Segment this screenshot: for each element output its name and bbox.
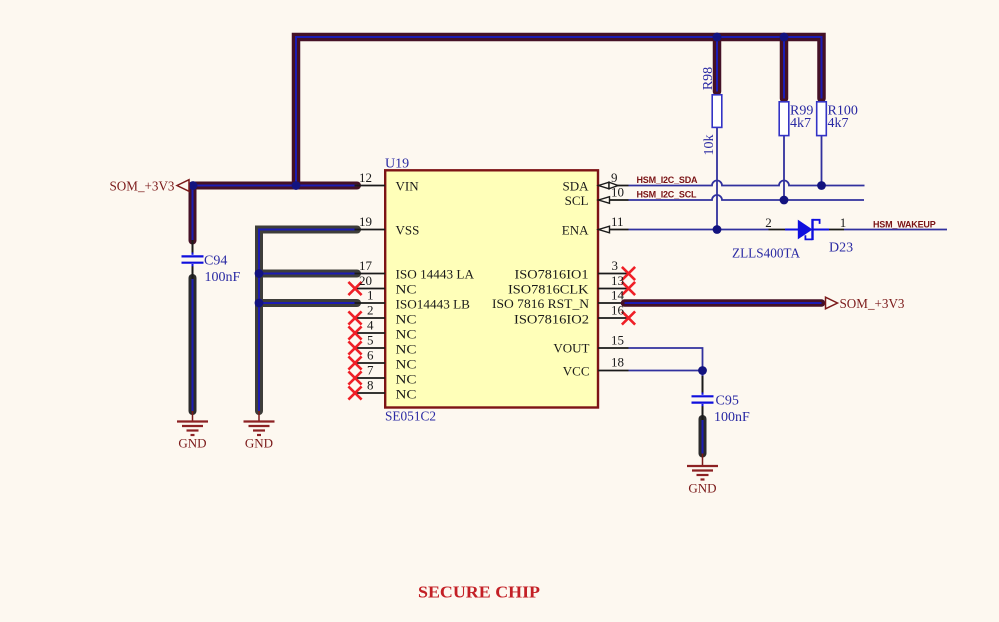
resistor R99	[779, 102, 789, 136]
svg-text:20: 20	[359, 273, 372, 288]
node: bus to R99	[780, 33, 789, 42]
svg-text:3: 3	[612, 258, 619, 273]
no-connect X pin 3	[622, 267, 635, 280]
diode D23 pin 1 lead	[829, 229, 844, 231]
wire: ISO 14443 LB to VSS line	[259, 299, 357, 307]
svg-text:SOM_+3V3: SOM_+3V3	[110, 180, 175, 195]
wire: R98 bottom to ENA	[716, 128, 718, 230]
svg-text:SECURE CHIP: SECURE CHIP	[418, 583, 540, 602]
svg-text:C94: C94	[204, 253, 227, 268]
svg-text:18: 18	[611, 355, 624, 370]
svg-text:NC: NC	[396, 312, 417, 327]
wire: VSS loop from pin 19 down	[259, 230, 357, 412]
no-connect X pin 8	[348, 386, 361, 399]
wire: C95 top link	[702, 372, 704, 395]
svg-text:11: 11	[611, 214, 624, 229]
wire: R99 bottom to SCL	[783, 136, 785, 201]
wire: ISO 14443 LA to VSS line	[259, 270, 357, 278]
no-connect X pin 7	[348, 371, 361, 384]
no-connect X pin 16	[622, 311, 635, 324]
no-connect X pin 5	[348, 341, 361, 354]
pin 2 stub	[355, 317, 385, 319]
svg-text:1: 1	[367, 288, 374, 303]
node: LA joins VSS line	[255, 269, 264, 278]
svg-text:2: 2	[765, 215, 772, 230]
pin 15 stub	[598, 347, 629, 349]
node: LB joins VSS line	[255, 299, 264, 308]
pin 3 stub	[598, 273, 629, 275]
pin 9 stub	[598, 185, 629, 187]
svg-text:19: 19	[359, 214, 372, 229]
svg-text:D23: D23	[829, 240, 853, 255]
capacitor C94	[182, 253, 204, 267]
diode D23 schottky symbol	[785, 219, 829, 240]
pin 9 SDA bidirectional arrows	[599, 182, 619, 189]
svg-text:7: 7	[367, 363, 374, 378]
wire: ENA net to diode	[629, 229, 769, 231]
svg-text:100nF: 100nF	[714, 410, 750, 425]
svg-text:VIN: VIN	[396, 179, 420, 194]
wire: C94 top link	[192, 240, 194, 255]
node: R98 joins ENA	[713, 225, 722, 234]
svg-text:SE051C2: SE051C2	[385, 410, 436, 425]
svg-text:9: 9	[611, 170, 618, 185]
pin 16 stub	[598, 317, 629, 319]
svg-text:10: 10	[611, 185, 624, 200]
wire: SOM_+3V3 horizontal to VIN pin 12	[193, 182, 357, 190]
node: R100 joins SDA	[817, 181, 826, 190]
wire: C94 bottom to GND	[189, 278, 197, 411]
svg-text:HSM_I2C_SCL: HSM_I2C_SCL	[637, 190, 698, 200]
node: VOUT joins VCC at C95	[698, 366, 707, 375]
node: bus drop joins VIN wire	[292, 181, 301, 190]
node: R99 joins SCL	[780, 196, 789, 205]
pin 11 stub	[598, 229, 629, 231]
pin 13 stub	[598, 288, 629, 290]
svg-text:6: 6	[367, 348, 374, 363]
pin 18 stub	[598, 370, 629, 372]
svg-text:GND: GND	[688, 481, 716, 496]
wire: C95 bottom link	[702, 404, 704, 420]
svg-text:ISO7816CLK: ISO7816CLK	[508, 282, 589, 297]
svg-text:16: 16	[611, 303, 625, 318]
node: bus to R98	[713, 33, 722, 42]
svg-text:ZLLS400TA: ZLLS400TA	[732, 247, 801, 262]
svg-text:ISO7816IO1: ISO7816IO1	[515, 267, 589, 282]
svg-text:NC: NC	[396, 387, 417, 402]
wire: SOM_+3V3 drop to C94	[189, 186, 197, 241]
power port SOM_+3V3 left	[110, 180, 190, 195]
svg-text:NC: NC	[396, 282, 417, 297]
pin 14 stub	[598, 302, 629, 304]
ground symbol for VSS	[244, 411, 275, 451]
svg-text:NC: NC	[396, 357, 417, 372]
svg-text:ENA: ENA	[562, 223, 589, 238]
svg-text:ISO14443 LB: ISO14443 LB	[396, 297, 471, 312]
svg-text:8: 8	[367, 378, 374, 393]
wire: R100 bottom to SDA	[821, 136, 823, 186]
svg-text:ISO 7816 RST_N: ISO 7816 RST_N	[492, 296, 590, 311]
svg-text:C95: C95	[716, 393, 739, 408]
svg-text:4k7: 4k7	[790, 116, 811, 131]
svg-text:SCL: SCL	[565, 193, 589, 208]
wire: VCC to C95 node	[629, 370, 703, 372]
pin 12 stub	[355, 185, 386, 187]
capacitor C95	[692, 393, 714, 407]
svg-text:SDA: SDA	[562, 179, 589, 194]
svg-text:5: 5	[367, 333, 374, 348]
svg-text:HSM_I2C_SDA: HSM_I2C_SDA	[637, 175, 699, 185]
svg-text:NC: NC	[396, 342, 417, 357]
svg-text:SOM_+3V3: SOM_+3V3	[840, 297, 905, 312]
pin 8 stub	[355, 392, 385, 394]
pin 20 stub	[355, 288, 385, 290]
IC U19 body	[385, 170, 598, 407]
wire: bus drop to R99	[780, 37, 789, 99]
no-connect X pin 2	[348, 311, 361, 324]
no-connect X pin 20	[348, 282, 361, 295]
wire: HSM_WAKEUP net	[844, 229, 947, 231]
svg-text:4k7: 4k7	[828, 116, 849, 131]
no-connect X pin 4	[348, 326, 361, 339]
pin 19 stub	[355, 229, 386, 231]
pin 1 stub	[355, 302, 386, 304]
no-connect X pin 6	[348, 356, 361, 369]
pin 10 stub	[598, 199, 629, 201]
pin 7 stub	[355, 377, 385, 379]
svg-text:13: 13	[611, 273, 624, 288]
svg-text:10k: 10k	[702, 135, 717, 156]
pin 6 stub	[355, 362, 385, 364]
svg-text:GND: GND	[178, 436, 206, 451]
wire: C94 bottom link	[192, 265, 194, 280]
svg-text:1: 1	[840, 215, 847, 230]
wire: SCL net with hop over R98 column	[629, 195, 865, 200]
svg-text:U19: U19	[385, 157, 409, 172]
svg-text:100nF: 100nF	[205, 270, 241, 285]
pin 5 stub	[355, 347, 385, 349]
svg-text:VSS: VSS	[396, 223, 420, 238]
svg-text:GND: GND	[245, 436, 273, 451]
pin 10 SCL input arrow	[599, 197, 610, 204]
resistor R98	[712, 95, 722, 128]
svg-text:NC: NC	[396, 372, 417, 387]
wire: pin 14 to SOM_+3V3 port	[625, 299, 822, 307]
svg-text:R98: R98	[701, 67, 716, 90]
resistor R100	[817, 102, 827, 136]
wire: +3V3 top bus	[296, 37, 822, 186]
svg-text:2: 2	[367, 303, 374, 318]
svg-text:NC: NC	[396, 327, 417, 342]
svg-text:14: 14	[611, 288, 625, 303]
wire: C95 node down	[702, 371, 704, 377]
wire: VOUT to C95 node	[629, 348, 703, 371]
svg-text:VOUT: VOUT	[553, 341, 589, 356]
no-connect X pin 13	[622, 282, 635, 295]
power port SOM_+3V3 right	[826, 297, 905, 312]
svg-text:ISO 14443 LA: ISO 14443 LA	[396, 267, 475, 282]
ground symbol for C95	[687, 454, 718, 496]
svg-text:17: 17	[359, 258, 373, 273]
svg-text:HSM_WAKEUP: HSM_WAKEUP	[873, 219, 936, 229]
pin 11 ENA input arrow	[599, 226, 610, 233]
diode D23 pin 2 lead	[769, 229, 786, 231]
wire: C95 bottom to GND	[699, 419, 707, 454]
node: SOM port junction	[189, 181, 198, 190]
wire: SDA net with hops over R98 and R99 columns	[629, 181, 865, 186]
svg-text:4: 4	[367, 318, 374, 333]
svg-text:15: 15	[611, 333, 624, 348]
svg-text:ISO7816IO2: ISO7816IO2	[514, 312, 589, 327]
pin 4 stub	[355, 332, 385, 334]
ground symbol for C94	[177, 411, 208, 451]
pin 17 stub	[355, 273, 386, 275]
wire: bus drop to R98	[713, 37, 722, 92]
svg-text:VCC: VCC	[563, 364, 590, 379]
svg-text:12: 12	[359, 170, 372, 185]
